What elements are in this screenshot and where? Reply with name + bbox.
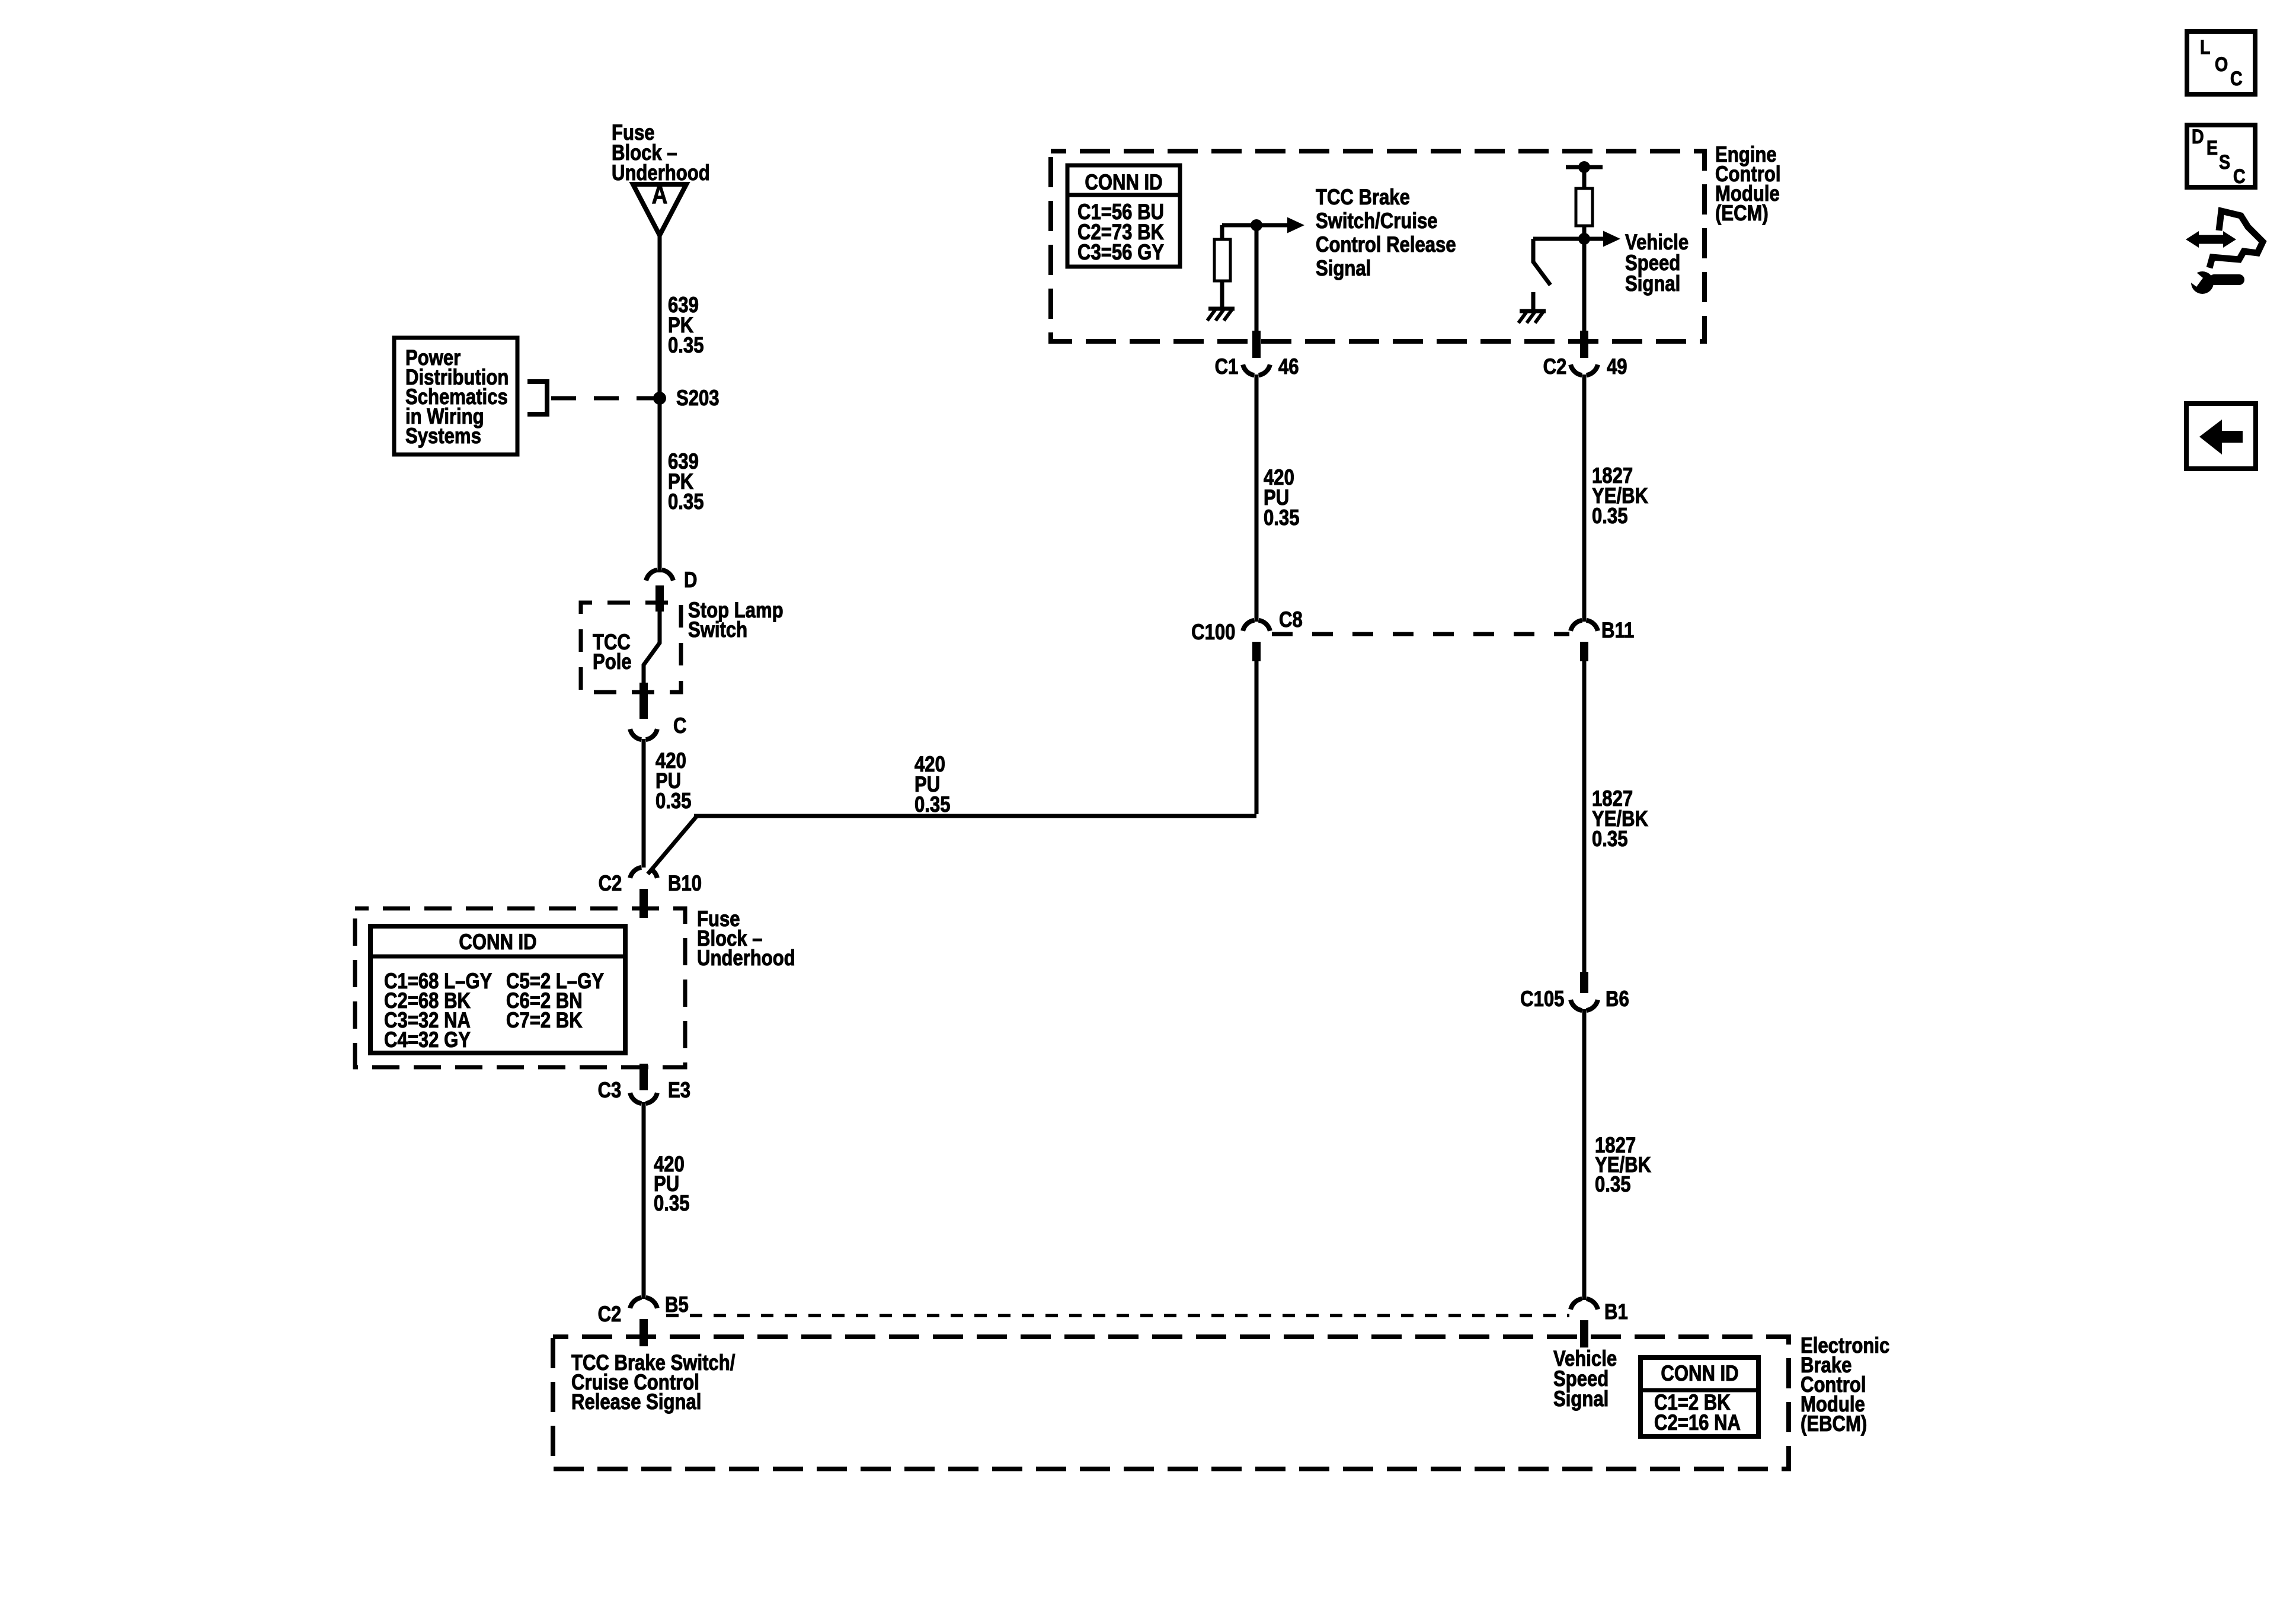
- label B6: [1606, 989, 1629, 1009]
- dashed reference link to Power Distribution box: [551, 396, 657, 401]
- icon back arrow: [2199, 420, 2243, 454]
- pin D: [655, 585, 664, 612]
- label Vehicle Speed Signal (ECM): [1625, 232, 1689, 294]
- pin 49 / ECM crossing tick: [1580, 331, 1588, 358]
- label C2 (EBCM left): [597, 1304, 621, 1324]
- connector D (Stop Lamp Switch): [646, 570, 673, 581]
- wire TCC signal horizontal: [1222, 223, 1288, 228]
- dashed box Fuse Block - Underhood: [355, 908, 685, 1067]
- connector C (Stop Lamp Switch out): [630, 729, 657, 740]
- icon wrench: [2183, 267, 2244, 294]
- pin C8: [1252, 642, 1261, 661]
- wire VSS ground stub: [1531, 292, 1536, 309]
- dashed box TCC Pole: [581, 603, 681, 692]
- wire label 420 PU 0.35 (branch): [914, 754, 950, 815]
- table rows CONN ID col2 (fuse block): [506, 971, 604, 1030]
- wire 420 PU (corner up to C100): [1255, 659, 1259, 814]
- label Power Distribution Schematics in Wiring Systems: [405, 348, 509, 446]
- label Vehicle Speed Signal (EBCM): [1553, 1349, 1617, 1409]
- junction dot TCC: [1251, 219, 1262, 231]
- icon letter C (LOC): [2230, 69, 2243, 89]
- icon letter D: [2192, 127, 2204, 147]
- table title CONN ID (EBCM): [1635, 1363, 1764, 1384]
- stop lamp switch blade: [644, 610, 660, 686]
- wire 639 PK (A to S203): [658, 234, 662, 398]
- wire TCC down to C1: [1255, 225, 1259, 344]
- pin 46 / ECM crossing tick: [1252, 331, 1261, 358]
- icon letter E: [2207, 138, 2218, 158]
- wire resistor to junction: [1582, 226, 1587, 239]
- icon box DESC: [2187, 125, 2255, 187]
- table CONN ID (EBCM) separator: [1641, 1388, 1758, 1393]
- label pin 49: [1607, 357, 1627, 377]
- wire label 1827 YE/BK 0.35 (upper): [1592, 466, 1648, 526]
- dashed in-harness link C8 to B11: [1272, 632, 1569, 636]
- pin C / crossing tick: [639, 683, 648, 719]
- label Fuse Block - Underhood (top): [612, 123, 710, 183]
- box Power Distribution Schematics in Wiring Systems: [394, 338, 517, 454]
- label B5: [665, 1295, 689, 1315]
- wire 1827 YE/BK (pin49 to B11): [1582, 375, 1587, 622]
- label Stop Lamp Switch: [688, 600, 784, 639]
- table CONN ID (ECM) separator: [1067, 193, 1180, 197]
- ground (ECM internal, VSS): [1518, 311, 1546, 323]
- wire VSS down to C2: [1582, 239, 1587, 344]
- wire 420 PU (E3 to B5): [642, 1102, 646, 1299]
- wire TCC pullup top: [1220, 225, 1224, 239]
- ground (ECM internal, TCC): [1207, 309, 1235, 321]
- connector C2 pin 49 (ECM): [1571, 364, 1598, 375]
- table rows CONN ID (EBCM): [1654, 1393, 1741, 1433]
- table CONN ID (ECM) outer: [1067, 165, 1180, 267]
- pin B5: [639, 1319, 648, 1346]
- wire label 420 PU 0.35 (below C): [655, 751, 691, 811]
- icon box back arrow: [2186, 404, 2256, 469]
- wire 420 PU (pin46 to C100): [1255, 375, 1259, 622]
- label E3: [668, 1080, 690, 1100]
- label Electronic Brake Control Module (EBCM): [1801, 1336, 1889, 1433]
- label C100: [1191, 622, 1235, 642]
- label TCC Brake Switch/Cruise Control Release Signal (EBCM): [571, 1353, 735, 1411]
- connector B1 (EBCM): [1571, 1299, 1598, 1310]
- arrowhead VSS signal: [1603, 231, 1620, 247]
- label B10: [668, 873, 702, 894]
- icon letter C (DESC): [2233, 167, 2246, 187]
- connector C105/B6: [1571, 1000, 1598, 1010]
- wire 639 PK (S203 to D): [658, 398, 662, 572]
- label B11: [1601, 620, 1634, 641]
- dashed box Electronic Brake Control Module (EBCM): [553, 1337, 1789, 1469]
- label A (power triangle): [645, 185, 674, 205]
- pin C3 / crossing tick: [639, 1064, 648, 1090]
- resistor R-TCC (ECM pullup): [1214, 239, 1230, 281]
- dashed box Engine Control Module (ECM): [1051, 151, 1705, 341]
- table CONN ID (fuse block) separator: [370, 955, 625, 959]
- connector C2/B5 (EBCM): [630, 1298, 657, 1308]
- pin B6: [1580, 972, 1588, 993]
- label C3: [597, 1080, 621, 1100]
- icon letter S: [2219, 152, 2230, 172]
- label C8: [1279, 610, 1303, 630]
- table rows CONN ID col1 (fuse block): [384, 971, 492, 1049]
- label TCC Pole: [593, 632, 632, 671]
- label C1 (ECM conn): [1214, 357, 1238, 377]
- label Fuse Block - Underhood (lower): [697, 909, 795, 968]
- junction dot VSS: [1578, 233, 1590, 245]
- wire label 639 PK 0.35 (lower): [668, 452, 703, 512]
- dashed in-harness link B5 to B1: [666, 1314, 1569, 1317]
- label TCC Brake Switch/Cruise Control Release Signal (ECM): [1316, 185, 1456, 280]
- power symbol A (Fuse Block - Underhood feed): [633, 184, 686, 235]
- label C2 (fuse block top): [598, 873, 622, 894]
- wire VSS bar to resistor: [1582, 167, 1587, 188]
- wire 420 PU (C to B10): [642, 739, 646, 868]
- connector B11 (EBCM side): [1571, 620, 1598, 631]
- arrowhead TCC signal: [1287, 217, 1304, 233]
- label C2 (ECM conn): [1543, 357, 1566, 377]
- table rows CONN ID (ECM): [1077, 202, 1164, 263]
- connector C100/C8: [1243, 620, 1270, 631]
- table CONN ID (EBCM) outer: [1641, 1358, 1758, 1436]
- icon letter O: [2215, 55, 2228, 75]
- icon box LOC: [2187, 31, 2255, 94]
- wire label 1827 YE/BK 0.35 (lower): [1595, 1135, 1651, 1194]
- wire label 420 PU 0.35 (middle): [1264, 468, 1299, 528]
- table title CONN ID (ECM): [1059, 172, 1188, 193]
- icon letter L: [2200, 37, 2210, 57]
- icon diagnostic double arrow: [2186, 231, 2236, 248]
- wire branch diagonal to B10: [648, 817, 696, 874]
- label B1: [1604, 1302, 1628, 1322]
- wire 420 PU horizontal branch: [694, 814, 1256, 818]
- wire label 1827 YE/BK 0.35 (middle): [1592, 789, 1648, 849]
- pin B10: [639, 889, 648, 918]
- wire VSS top bar: [1566, 165, 1603, 169]
- connector C3/E3 (Fuse Block out): [630, 1093, 657, 1103]
- label C105: [1520, 989, 1564, 1009]
- wire VSS signal horizontal: [1533, 237, 1604, 241]
- wire label 420 PU 0.35 (to B5): [654, 1154, 689, 1213]
- connector C1 pin 46 (ECM): [1243, 364, 1270, 375]
- label S203: [676, 388, 720, 408]
- connector C2/B10 (Fuse Block): [630, 868, 657, 878]
- wire 1827 YE/BK (B6 to B1): [1582, 1009, 1587, 1300]
- icon diagnostic outline: [2209, 211, 2263, 268]
- wire 1827 YE/BK (B11 to C105): [1582, 661, 1587, 972]
- table title CONN ID (fuse block): [423, 932, 573, 952]
- junction dot VSS top: [1578, 161, 1590, 173]
- table CONN ID (fuse block) outer: [370, 926, 625, 1053]
- splice S203: [653, 392, 666, 405]
- pin B1: [1580, 1320, 1588, 1347]
- pin B11: [1580, 642, 1588, 661]
- label pin 46: [1278, 357, 1299, 377]
- label D: [684, 570, 697, 590]
- switch blade VSS (internal): [1533, 239, 1550, 285]
- resistor R-VSS (ECM pullup): [1576, 188, 1593, 226]
- bracket from Power Distribution box: [527, 382, 547, 414]
- label Engine Control Module (ECM): [1715, 145, 1780, 223]
- label C: [673, 716, 686, 736]
- wire below resistor R-TCC: [1220, 281, 1224, 307]
- wire label 639 PK 0.35 (upper): [668, 295, 703, 356]
